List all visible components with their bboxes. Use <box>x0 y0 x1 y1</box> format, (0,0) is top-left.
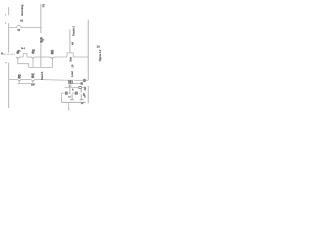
wire riser main vertical lower <box>40 43 42 67</box>
tap V2 funnel <box>31 57 35 58</box>
capacitor plate left <box>70 99 74 101</box>
line sub horizontal y83.4 right <box>69 82 83 84</box>
wire V2 drop <box>32 58 34 67</box>
wire drop from box D1 <box>69 83 71 92</box>
svg-text:Incoming: Incoming <box>21 4 24 16</box>
wire V1 drop <box>17 58 19 63</box>
bus B4 right segment <box>74 79 88 81</box>
svg-text:A: A <box>72 88 74 91</box>
wire left feeder lower segment <box>8 63 10 108</box>
ground arrow <box>68 109 70 110</box>
box blob b2 on y93 <box>75 92 77 94</box>
transformer T1 secondary <box>40 41 42 43</box>
tap V5 funnel <box>31 80 34 82</box>
wire short vertical x81.1 <box>80 89 82 93</box>
wire V3 drop <box>52 58 54 67</box>
tap V3 funnel <box>50 57 54 58</box>
switch S1 blade tick top <box>5 14 6 17</box>
tap V4 funnel <box>17 79 21 81</box>
box disconnect D1 <box>68 80 72 83</box>
meter M4 circle <box>18 76 20 78</box>
capacitor plate right <box>80 99 84 101</box>
meter M6 blob in box <box>70 81 72 83</box>
wire V4 drop <box>18 81 20 83</box>
svg-text:4A: 4A <box>72 42 75 45</box>
svg-text:Figure 4-2: Figure 4-2 <box>99 49 102 61</box>
svg-text:2P: 2P <box>72 64 75 67</box>
svg-text:Feeder 2: Feeder 2 <box>72 25 75 36</box>
svg-text:Sub: Sub <box>68 56 72 61</box>
meter M3 circle <box>51 52 53 54</box>
capacitor stub right <box>80 94 82 99</box>
box tiny on y87.4 right <box>79 87 82 89</box>
line sub horizontal y83.4 left <box>17 82 35 84</box>
svg-text:1A: 1A <box>97 45 100 48</box>
bus B3 y67.4 <box>29 66 53 68</box>
capacitor stub left <box>71 94 73 99</box>
transformer T1 primary <box>40 38 42 40</box>
wire right vertical lower <box>87 86 89 103</box>
demarcation dashed line <box>3 53 15 55</box>
switch S1 blade tick bottom <box>5 22 6 25</box>
wire feeder2 vertical <box>69 30 71 53</box>
svg-text:Load: Load <box>71 71 74 77</box>
meter M5 circle <box>32 76 34 78</box>
line y87.4 tail <box>82 86 84 88</box>
wire riser main vertical upper <box>40 4 42 33</box>
background <box>0 0 103 120</box>
svg-text:N: N <box>1 52 3 55</box>
wire V5 drop <box>32 81 34 83</box>
box small breaker on y83.4 end <box>81 83 83 85</box>
wire right vertical upper <box>87 20 89 80</box>
line bottom sub y87.4 with hump <box>65 86 79 88</box>
ground drop wire <box>68 102 70 109</box>
tap V1 funnel <box>16 57 20 58</box>
bus B4 lower horizontal left <box>9 78 18 80</box>
meter M1 circle <box>17 51 19 53</box>
dashed panel top y93 <box>61 92 80 94</box>
meter M2 circle <box>32 51 34 53</box>
bus B1 top horizontal <box>9 25 42 27</box>
line sub horizontal y63.7 <box>17 64 28 68</box>
svg-text:G: G <box>84 95 86 98</box>
wire left feeder upper segment <box>8 7 10 15</box>
svg-text:F2: F2 <box>41 4 45 8</box>
wire left feeder middle segment <box>8 23 10 52</box>
box small breaker on B4 right <box>84 79 86 81</box>
box blob b1 on y93 <box>65 92 67 94</box>
bus B2 middle horizontal with humps and taps <box>20 54 32 57</box>
panel left side <box>60 93 62 102</box>
bus panel bottom y102.3 <box>61 101 85 103</box>
switch S2 blade tick <box>5 61 6 64</box>
svg-text:Panel A: Panel A <box>41 71 44 80</box>
